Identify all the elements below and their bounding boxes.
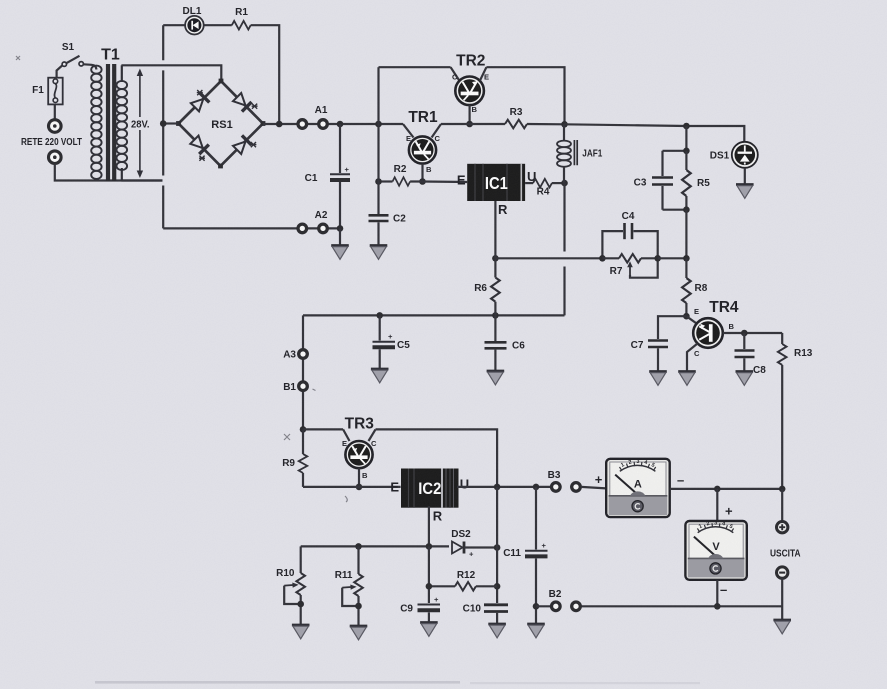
- switch S1: [62, 56, 83, 67]
- bridge diode lower-left: [190, 135, 209, 154]
- ammeter M1: [606, 459, 670, 517]
- wire TR1 left lead: [403, 124, 414, 138]
- node R11 wiper: [355, 603, 362, 610]
- trimmer R11: [342, 546, 363, 625]
- capacitor C9 (electrolytic): [418, 595, 441, 623]
- node R13 bottom / output: [779, 486, 786, 493]
- wire secondary bottom to left vertical: [121, 179, 162, 181]
- node DS2 cathode on vertical: [494, 544, 501, 551]
- node R10 wiper: [297, 601, 304, 608]
- resistor R12: [455, 582, 476, 591]
- ground (C7): [649, 372, 667, 386]
- wire R12 row: [429, 546, 455, 603]
- node TR4 emitter junction: [683, 313, 690, 320]
- terminal B2 right: [572, 602, 581, 611]
- wire DL1/R1 top run: [163, 25, 279, 124]
- terminal B3 left: [552, 483, 561, 492]
- wire secondary top to bridge top: [121, 65, 221, 81]
- wire C2 branch: [377, 124, 379, 214]
- transistor TR3: [345, 441, 372, 468]
- inductor JAF1: [557, 124, 577, 183]
- node bridge left / DL1 branch: [160, 120, 167, 127]
- resistor R8: [682, 258, 691, 316]
- wire TR3 rail left segment: [303, 428, 343, 430]
- wire C7 branch: [658, 316, 686, 339]
- ground (TR4 collector): [678, 372, 696, 386]
- wire minus terminal to B2 rail: [781, 578, 783, 620]
- node R6/C6 branch: [492, 312, 499, 319]
- wire IC2 U rail to B3: [457, 486, 551, 488]
- trimmer R10: [284, 546, 305, 625]
- ground (R10): [292, 625, 310, 639]
- node R7 net / R8 vertical: [683, 255, 690, 262]
- resistor R3: [505, 120, 527, 129]
- ground (DS1): [736, 185, 754, 199]
- resistor R9: [299, 429, 308, 487]
- wire TR4 collector lead: [687, 344, 698, 372]
- node C3/R5 bottom: [683, 206, 690, 213]
- wire TR1 right lead: [432, 124, 441, 138]
- wire right vertical (TR3 corner to C10): [496, 487, 498, 603]
- capacitor C7: [648, 341, 668, 372]
- resistor R5: [682, 151, 691, 210]
- capacitor C5 (electrolytic): [373, 315, 396, 369]
- wire R4 to JAF1 node: [552, 182, 565, 184]
- node R2/C2 branch: [375, 178, 382, 185]
- ground (C5): [371, 369, 389, 383]
- wire voltmeter top: [716, 489, 718, 521]
- terminal A2 right: [319, 224, 328, 233]
- resistor R2: [393, 177, 411, 186]
- transformer T1 secondary coil: [117, 65, 128, 180]
- node R7 right: [654, 255, 661, 262]
- wire TR1 base: [421, 164, 423, 182]
- wire IC2 R pin down: [428, 506, 430, 546]
- node TR1 base / R2 row: [419, 178, 426, 185]
- capacitor C3: [652, 178, 686, 210]
- wire TR2 right lead: [480, 67, 487, 81]
- transistor TR1: [409, 136, 436, 163]
- node C1 branch: [337, 121, 344, 128]
- wire C1 to ground: [339, 228, 341, 245]
- bridge diode upper-right: [232, 92, 251, 111]
- transformer T1 primary coil: [91, 66, 101, 179]
- resistor R6: [491, 258, 500, 315]
- wire C5/C6 rail: [303, 314, 565, 316]
- wire ammeter to right vertical: [670, 488, 783, 490]
- wire mains bottom terminal to transformer bottom: [55, 164, 163, 181]
- node voltmeter / B2 rail: [714, 603, 721, 610]
- wire top rail left (to TR2): [379, 66, 451, 68]
- diode DS2: [452, 542, 497, 554]
- wire R2 left to vertical: [379, 180, 393, 182]
- node R12 left: [426, 583, 433, 590]
- node TR2 base on rail: [466, 121, 473, 128]
- trimmer R7: [602, 254, 657, 278]
- ground (C9): [420, 623, 438, 637]
- resistor R13: [778, 333, 787, 489]
- wire R5 bottom to R7 net: [685, 210, 687, 259]
- wire IC2 E rail: [303, 486, 401, 488]
- bridge rectifier RS1: [176, 79, 265, 169]
- node R4/JAF1: [561, 180, 568, 187]
- wire R pin rail: [301, 545, 449, 547]
- node C5 branch: [376, 312, 383, 319]
- diode DS1: [732, 142, 758, 185]
- capacitor C1 (electrolytic): [330, 124, 350, 228]
- wire A1 rail TR1 to R3: [441, 123, 505, 125]
- transistor TR2: [455, 77, 484, 106]
- resistor R4: [533, 179, 552, 188]
- terminal B3 right: [572, 483, 581, 492]
- node DL1/R1 drop on A1 rail: [276, 121, 283, 128]
- wire R7 net to R8 vertical: [658, 257, 687, 259]
- resistor R1: [232, 21, 251, 30]
- ground (C2): [370, 246, 388, 260]
- lamp DL1: [185, 16, 204, 35]
- node R12 right: [494, 583, 501, 590]
- wire mains top terminal to fuse: [54, 104, 56, 119]
- wire TR2 base: [469, 105, 471, 124]
- wire bridge left vertex to left vertical: [163, 122, 178, 124]
- node B2 rail / C11 vertical: [533, 603, 540, 610]
- node C3/R5 top: [683, 148, 690, 155]
- node C3/R5 branch on top rail: [683, 123, 690, 130]
- capacitor C2: [369, 215, 389, 245]
- terminal USCITA +: [777, 522, 788, 533]
- transistor TR4: [693, 318, 723, 348]
- wire output vertical to plus terminal: [781, 489, 783, 522]
- wire B3 to ammeter: [581, 487, 606, 489]
- ground (C11): [527, 624, 545, 638]
- capacitor C4 loop: [602, 223, 657, 258]
- terminal A2 left: [298, 224, 307, 233]
- wire TR3 emitter lead: [343, 429, 349, 441]
- node TR3 rail left: [300, 426, 307, 433]
- node R11 top: [355, 543, 362, 550]
- wire C3/R5 split: [663, 126, 687, 176]
- node A1 rail / TR2 collector branch: [375, 121, 382, 128]
- terminal B2 left: [552, 602, 561, 611]
- node voltmeter branch: [714, 486, 721, 493]
- wire R3 to right vertical: [527, 123, 565, 126]
- node right vertical / R3 rail: [561, 121, 568, 128]
- node U rail / TR3 corner vertical: [494, 484, 501, 491]
- wire IC1 R pin down: [494, 201, 496, 258]
- wire TR2 collector vertical: [377, 67, 379, 124]
- ground (C6): [487, 371, 505, 385]
- wire top rail right (TR2 to right vertical): [486, 67, 564, 124]
- wire A2 rail: [163, 227, 340, 229]
- wire voltmeter bottom: [716, 580, 718, 607]
- transformer T1 core: [108, 64, 114, 181]
- op-amp IC1: [467, 164, 525, 201]
- wire R7 net horizontal (crosses JAF1 vertical): [495, 257, 602, 259]
- wire left vertical (DL1 branch, crosses transformer rails): [162, 25, 164, 228]
- scan speckle marks: [16, 56, 347, 502]
- capacitor C11 (electrolytic): [525, 487, 548, 624]
- fuse F1: [48, 78, 63, 105]
- wire TR2 left lead: [451, 67, 460, 81]
- scan smudge bottom: [95, 681, 460, 684]
- terminal RETE top: [49, 120, 62, 133]
- wire TR4 base to C8/R13: [723, 332, 782, 334]
- terminal USCITA -: [777, 567, 788, 578]
- node R pin / R7 net left: [492, 255, 499, 262]
- node R pin rail / IC2 R: [426, 543, 433, 550]
- ground (C10): [488, 624, 506, 638]
- capacitor C6: [485, 315, 507, 371]
- terminal A3: [299, 350, 308, 359]
- ground (C8): [736, 372, 754, 386]
- wire TR4 emitter lead: [686, 316, 698, 324]
- terminal A1 left: [298, 120, 307, 129]
- wire rail to C3/R5 and DS1: [565, 124, 745, 143]
- wire A1 rail: [263, 123, 403, 125]
- terminal B1: [299, 382, 308, 391]
- terminal RETE bottom: [49, 151, 62, 164]
- 28V measuring arrow: [128, 69, 152, 179]
- ground (R11): [350, 626, 368, 640]
- node TR3 base on E rail: [356, 484, 363, 491]
- wire fuse to switch S1: [57, 65, 63, 78]
- terminal A1 right: [319, 120, 328, 129]
- ground (C1): [331, 246, 349, 260]
- wire TR3 base: [358, 468, 360, 487]
- capacitor C8: [735, 333, 755, 372]
- voltmeter M2: [685, 520, 746, 580]
- capacitor C10: [484, 605, 508, 624]
- wire A3/B1 vertical: [302, 315, 304, 429]
- wire R12 to right vertical: [476, 585, 497, 587]
- ground (output): [773, 620, 791, 634]
- bridge diode upper-left: [190, 93, 209, 112]
- op-amp IC2: [401, 469, 459, 508]
- node C8 branch: [741, 330, 748, 337]
- wire B2 rail: [536, 605, 782, 607]
- wire switch to primary: [84, 64, 97, 69]
- wire TR3 collector lead: [369, 429, 376, 441]
- node R7 left: [599, 255, 606, 262]
- wire TR3 rail right to corner: [376, 429, 498, 487]
- node A2 rail / C1 ground: [337, 225, 344, 232]
- node C11 branch: [533, 484, 540, 491]
- wire R2 to IC1 E pin: [410, 180, 467, 183]
- wire JAF1 node down (crosses R7 net): [563, 183, 565, 315]
- wire IC1 U pin to R4: [525, 182, 533, 184]
- bridge diode lower-right: [232, 135, 251, 154]
